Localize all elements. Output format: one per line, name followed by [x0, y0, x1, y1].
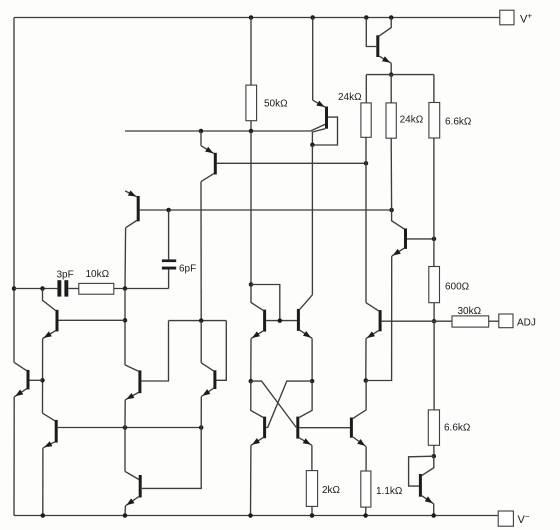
capacitor C1 3pF [57, 280, 61, 296]
resistor R5 600 [429, 267, 440, 303]
capacitor C2 6pF [162, 259, 176, 262]
resistor R8 6.6k (lower) [428, 410, 439, 445]
transistor Q3 (NPN) [55, 420, 58, 443]
transistor Q5 (NPN) [56, 310, 59, 332]
wire x=312 column (Q13 collector down to Q8) [311, 145, 313, 295]
svg-text:6.6kΩ: 6.6kΩ [445, 117, 472, 128]
wire 600 bottom lead [433, 303, 435, 322]
node top rail junction at 50k [249, 15, 254, 20]
wire 24k-1 top lead [365, 75, 367, 103]
wire Q4 emitter down left border to V- rail [13, 397, 15, 516]
wire base feed L to pair base node [251, 285, 280, 321]
node V- rail at Q10b emitter [248, 513, 253, 518]
transistor Q10b (lower left of quad) [263, 417, 266, 439]
resistor R1 50k [246, 85, 257, 121]
svg-text:2kΩ: 2kΩ [322, 485, 341, 496]
node Q8a collector/base feed node [249, 282, 254, 287]
wire Q7 collector from node [200, 321, 202, 363]
transistor Q9 (NPN) [139, 475, 142, 498]
svg-text:10kΩ: 10kΩ [86, 269, 110, 280]
wire Q5 base to x=125 column [59, 319, 126, 321]
svg-text:6.6kΩ: 6.6kΩ [444, 423, 471, 434]
node bias rail at Q2 emitter [199, 129, 204, 134]
wire 6.6k-1 top lead [433, 75, 435, 103]
resistor R4 6.6k (upper) [429, 103, 440, 139]
wire Q1 base long wire y=210 [140, 209, 392, 211]
node comp node at x=125 column [123, 286, 128, 291]
wire 6pF bottom lead [168, 270, 170, 289]
transistor Q12 (NPN) [350, 418, 353, 438]
wire Q7 base tie box [216, 321, 226, 381]
terminal V+ [500, 10, 514, 25]
wire Q2 base to x=366 column [217, 162, 366, 164]
node Q3 base wire at x=125 column [123, 425, 128, 430]
node base wire end at Q10 collector column [389, 208, 394, 213]
node base wire at 6pF tap [166, 208, 171, 213]
wire cross-couple right-to-left (to Q10b base) [266, 381, 312, 427]
node Q15/Q10 emitter tie node [364, 378, 369, 383]
svg-text:3pF: 3pF [57, 270, 74, 281]
wire Q1 collector down to compensation node [124, 228, 127, 289]
wire cross-couple left-to-right (to Q11 base) [251, 381, 296, 427]
wire Q11 emitter to 2k [311, 445, 313, 470]
node pair base node [278, 318, 283, 323]
wire Q14 emitter lead [390, 63, 392, 74]
resistor R2 24k (left) [361, 103, 371, 137]
node V- rail at Q3 emitter [41, 513, 46, 518]
resistor R6 30k [452, 316, 489, 327]
transistor Q14 (diode-connected NPN from V+) [376, 35, 379, 57]
transistor Q11 (lower right of quad) [296, 417, 299, 439]
wire Q11 base wire to Q12 base [299, 427, 350, 429]
transistor Q8a (left of pair) [263, 310, 266, 332]
svg-text:6pF: 6pF [179, 264, 196, 275]
wire 2k bottom lead [311, 506, 313, 515]
node V- rail at 2k [310, 513, 315, 518]
wire bias rail y=131 [125, 130, 312, 132]
svg-text:50kΩ: 50kΩ [264, 98, 288, 109]
wire 50k bottom lead [250, 121, 252, 131]
wire Q9 base loop to Q7 emitter node [142, 428, 201, 489]
wire top V+ rail [14, 17, 500, 19]
wire 6.6k-2 bottom lead [433, 445, 435, 456]
wire 30k to ADJ terminal [489, 320, 499, 322]
node cross node right [310, 379, 315, 384]
wire Q3 emitter down to V- rail [42, 448, 44, 516]
node junction y=74.6 at x=391 [389, 72, 394, 77]
svg-text:24kΩ: 24kΩ [338, 92, 362, 103]
wire left border to 3pF [14, 288, 57, 290]
wire Q2 emitter lead [200, 131, 202, 146]
node top rail junction at Q13 emitter column [310, 15, 315, 20]
wire left border column (V+ feed down left side) [13, 18, 15, 363]
transistor Q1 (PNP) [137, 196, 140, 221]
transistor Q2 (PNP) [214, 153, 217, 175]
node Q4 base junction on x=42 column [40, 378, 45, 383]
wire Q9 emitter to V- rail [124, 506, 126, 516]
wire 1.1k bottom lead [365, 507, 367, 515]
node V- rail at Q9 emitter [123, 513, 128, 518]
resistor R10 10k [79, 283, 114, 294]
resistor R9 1.1k [361, 471, 371, 507]
node Q2 base at 24k-1 column [364, 161, 369, 166]
wire Q7 emitter down to Q3/Q9 base node [200, 397, 202, 428]
node Q10 base at 6.6k column [432, 237, 437, 242]
wire Q8b emitter down to cross node [311, 338, 313, 381]
wire Q13 emitter from top rail [312, 18, 314, 101]
svg-text:1.1kΩ: 1.1kΩ [376, 486, 403, 497]
resistor R7 2k [306, 471, 317, 507]
wire horizontal y=74.6 (24k/6.6k top feed) [366, 74, 434, 76]
transistor Q8b (right of pair) [297, 309, 300, 331]
wire 10k to 6pF riser [114, 288, 169, 290]
node comp node at left border [12, 286, 17, 291]
svg-text:ADJ: ADJ [517, 318, 536, 329]
node top rail junction at Q14 base [364, 15, 369, 20]
wire mid node wire y=320.6 [169, 320, 227, 322]
node V- rail at Q16 emitter [431, 513, 436, 518]
terminal V- [498, 511, 513, 526]
wire Q15 emitter down to shared node [365, 339, 367, 381]
wire x=125 column comp node down to Q6 collector [124, 289, 126, 365]
wire x=251 column bias rail down to Q8a [250, 131, 252, 285]
svg-text:24kΩ: 24kΩ [400, 115, 424, 126]
transistor Q7 (diode-connected NPN) [213, 370, 216, 389]
wire Q3 base long wire y=427.5 [58, 427, 202, 429]
node ADJ junction [432, 319, 437, 324]
transistor Q10 (NPN) [404, 228, 407, 249]
node Q7/Q2 collector-base node [199, 318, 204, 323]
wire ADJ line from Q15 base [382, 320, 452, 322]
node Q3 base wire end junction (Q7 emitter) [199, 425, 204, 430]
transistor Q4 (NPN) [27, 370, 30, 390]
transistor Q6 (NPN) [138, 370, 141, 393]
wire Q9 collector from Q3-base node [124, 428, 126, 472]
wire 6.6k-1 bottom down to 600 top [433, 138, 435, 267]
node top rail junction at Q14 collector [389, 15, 394, 20]
terminal ADJ [499, 314, 513, 328]
node Q16 collector-base node [432, 454, 437, 459]
wire Q4 base to x=42 column [30, 379, 43, 381]
wire Q6 base riser to mid node wire [141, 321, 168, 381]
wire Q2 collector down to diode node [200, 182, 202, 321]
transistor Q15 (NPN, ADJ base) [379, 310, 382, 331]
wire pair base wire [266, 320, 297, 322]
wire Q10b emitter to V- rail [250, 445, 252, 515]
wire Q10 emitter down and over to tie node [366, 256, 392, 380]
node comp node at Q5 collector tap [40, 286, 45, 291]
svg-text:600Ω: 600Ω [445, 282, 470, 293]
wire bottom V- rail [14, 515, 498, 517]
wire 6pF top lead to base wire [168, 210, 170, 259]
wire 24k-2 top lead [390, 75, 392, 103]
wire Q6 emitter down to Q9 collector [124, 400, 126, 428]
resistor R3 24k (right) [386, 103, 396, 138]
wire 3pF to 10k [68, 288, 79, 290]
svg-text:30kΩ: 30kΩ [458, 306, 482, 317]
wire Q16 emitter to V- rail [433, 504, 435, 516]
node cross node left [249, 379, 254, 384]
node Q13 collector junction [310, 143, 315, 148]
wire Q10 base to 6.6k column [407, 238, 434, 240]
wire x=366 column 24k-1 bottom down to Q15 [365, 137, 367, 302]
wire Q8a emitter down to cross node [250, 339, 252, 382]
wire Q5 emitter column down [42, 339, 44, 414]
node V- rail at 1.1k [363, 513, 368, 518]
transistor Q13 (diode-connected PNP) [325, 107, 328, 129]
node bias rail at 50k bottom [249, 129, 254, 134]
wire 50k top lead [250, 18, 252, 86]
node Q5 base junction on x=125 column [123, 318, 128, 323]
transistor Q16 (diode-connected NPN at V-) [419, 474, 422, 497]
wire 24k-2 bottom lead down to y=210 node [390, 138, 392, 210]
wire ADJ node down to 6.6k-2 [433, 321, 435, 410]
wire Q12 emitter to 1.1k [365, 447, 367, 472]
